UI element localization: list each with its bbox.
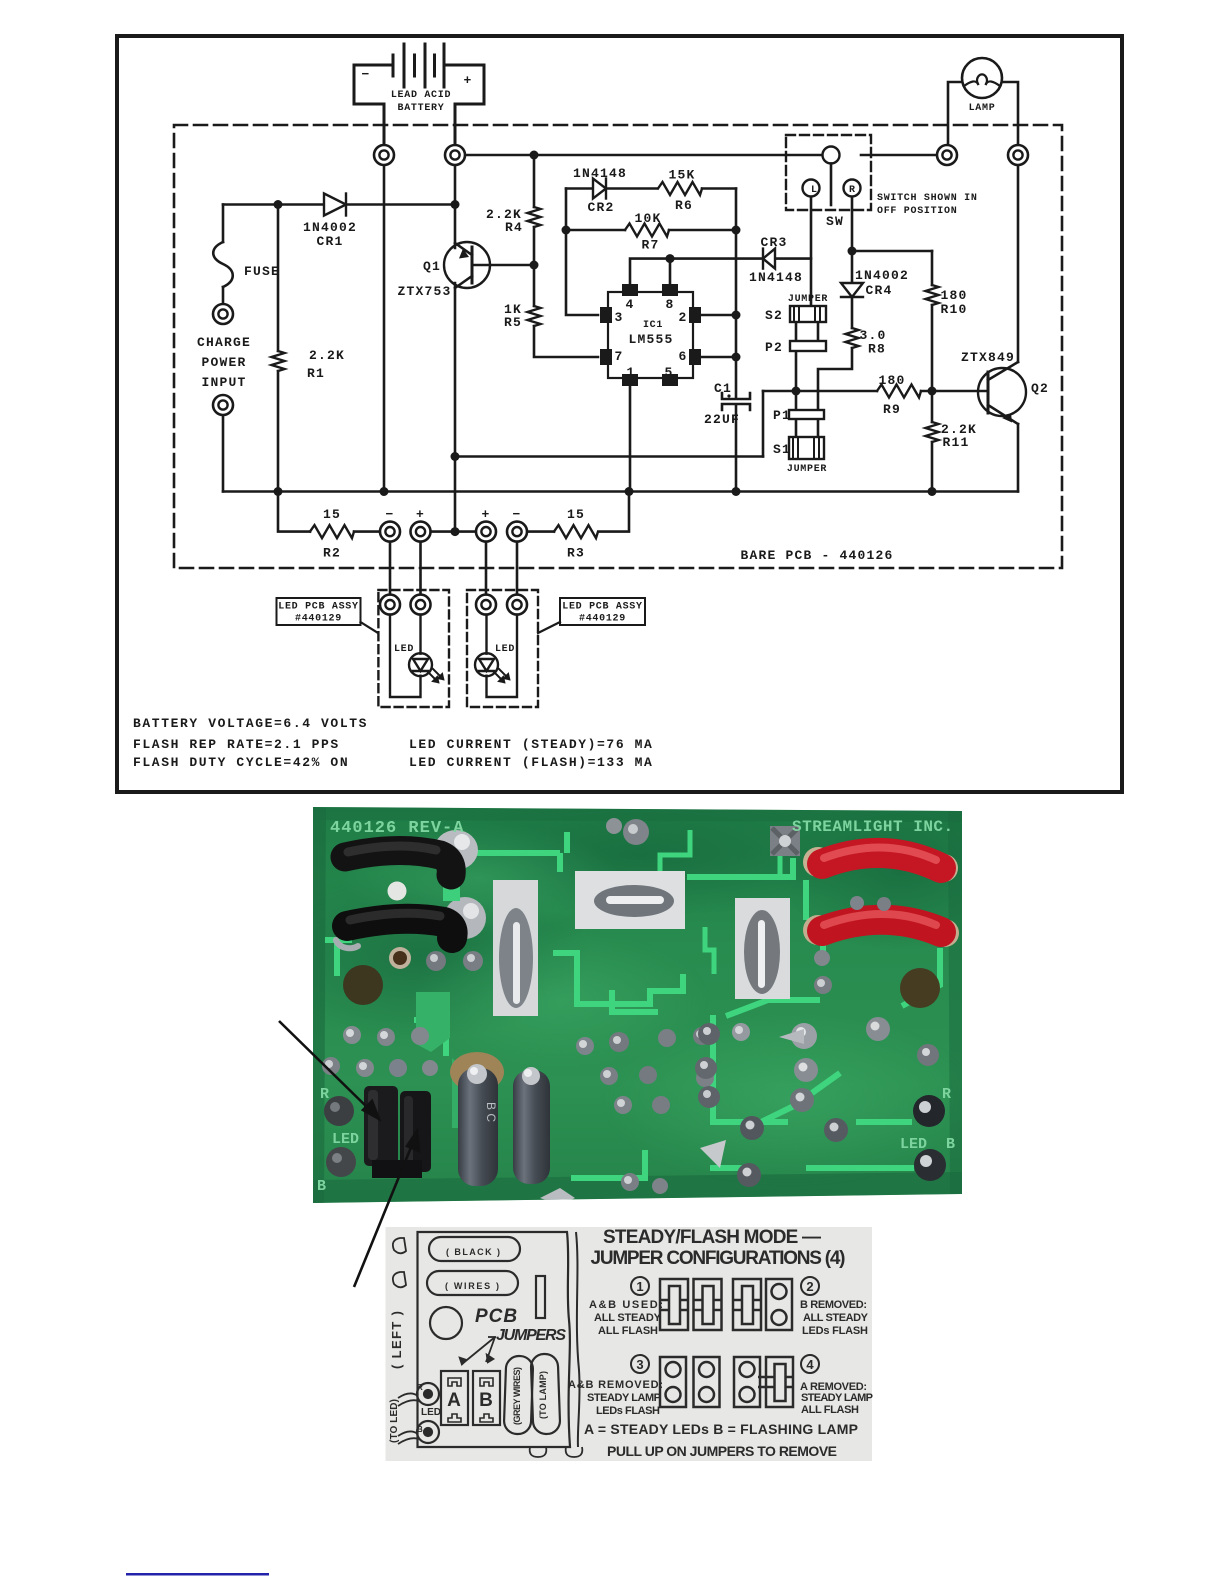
svg-text:+: +	[481, 507, 490, 522]
svg-text:R11: R11	[942, 435, 969, 450]
svg-text:JUMPERS: JUMPERS	[496, 1327, 566, 1344]
svg-text:−: −	[512, 507, 521, 522]
svg-text:LEAD ACID: LEAD ACID	[391, 90, 451, 101]
svg-text:1N4002: 1N4002	[303, 220, 357, 235]
svg-text:C1: C1	[714, 381, 732, 396]
svg-text:BATTERY VOLTAGE=6.4 VOLTS: BATTERY VOLTAGE=6.4 VOLTS	[133, 716, 368, 731]
svg-text:R10: R10	[940, 302, 967, 317]
svg-text:B: B	[946, 1136, 955, 1153]
svg-text:STEADY LAMP: STEADY LAMP	[801, 1392, 873, 1404]
svg-text:ALL FLASH: ALL FLASH	[801, 1404, 859, 1416]
svg-text:SW: SW	[826, 214, 844, 229]
svg-text:180: 180	[940, 288, 967, 303]
svg-text:JUMPER CONFIGURATIONS (4): JUMPER CONFIGURATIONS (4)	[591, 1248, 846, 1269]
svg-text:1: 1	[636, 1279, 643, 1294]
svg-text:ZTX753: ZTX753	[397, 284, 451, 299]
svg-text:R: R	[849, 185, 856, 196]
svg-text:B: B	[479, 1390, 493, 1411]
svg-text:FLASH REP RATE=2.1 PPS: FLASH REP RATE=2.1 PPS	[133, 737, 340, 752]
svg-text:ALL FLASH: ALL FLASH	[598, 1325, 658, 1337]
svg-text:2: 2	[678, 310, 687, 325]
svg-text:JUMPER: JUMPER	[788, 294, 828, 305]
svg-text:R3: R3	[567, 546, 585, 561]
svg-text:#440129: #440129	[579, 614, 626, 625]
svg-text:180: 180	[878, 373, 905, 388]
svg-text:#440129: #440129	[295, 614, 342, 625]
svg-text:(TO LED): (TO LED)	[389, 1399, 400, 1443]
svg-text:R2: R2	[323, 546, 341, 561]
svg-text:LED: LED	[421, 1407, 441, 1418]
svg-text:15K: 15K	[668, 168, 695, 183]
svg-text:S1: S1	[773, 442, 791, 457]
svg-text:B: B	[417, 1425, 423, 1434]
svg-text:S2: S2	[765, 308, 783, 323]
svg-text:CR4: CR4	[865, 283, 892, 298]
svg-text:LM555: LM555	[628, 332, 673, 347]
svg-text:LED CURRENT (STEADY)=76 MA: LED CURRENT (STEADY)=76 MA	[409, 737, 653, 752]
svg-text:(GREY WIRES): (GREY WIRES)	[512, 1367, 522, 1425]
svg-text:1N4148: 1N4148	[573, 166, 627, 181]
svg-text:STREAMLIGHT INC.: STREAMLIGHT INC.	[792, 818, 954, 836]
svg-text:(TO LAMP): (TO LAMP)	[538, 1371, 548, 1419]
svg-text:LED: LED	[495, 644, 515, 655]
svg-text:15: 15	[323, 507, 341, 522]
svg-text:A&B USED:: A&B USED:	[589, 1299, 663, 1311]
svg-text:BARE PCB - 440126: BARE PCB - 440126	[740, 548, 893, 563]
svg-text:5: 5	[664, 365, 673, 380]
svg-text:IC1: IC1	[643, 320, 663, 331]
svg-text:1N4002: 1N4002	[855, 268, 909, 283]
svg-text:+: +	[416, 507, 425, 522]
svg-text:Q2: Q2	[1031, 381, 1049, 396]
svg-text:LED CURRENT (FLASH)=133 MA: LED CURRENT (FLASH)=133 MA	[409, 755, 653, 770]
svg-text:22UF: 22UF	[704, 412, 740, 427]
svg-text:LED: LED	[332, 1131, 359, 1148]
svg-text:A = STEADY LEDs B = FLASHING: A = STEADY LEDs B = FLASHING LAMP	[584, 1421, 858, 1437]
svg-text:B: B	[317, 1178, 326, 1195]
svg-text:P2: P2	[765, 340, 783, 355]
svg-text:7: 7	[614, 349, 623, 364]
svg-text:SWITCH SHOWN IN: SWITCH SHOWN IN	[877, 193, 978, 204]
svg-text:B REMOVED:: B REMOVED:	[800, 1299, 867, 1311]
svg-text:CR1: CR1	[316, 234, 343, 249]
svg-text:L: L	[811, 185, 818, 196]
svg-text:R5: R5	[504, 315, 522, 330]
svg-text:LEDs FLASH: LEDs FLASH	[802, 1325, 868, 1337]
svg-text:4: 4	[806, 1357, 814, 1372]
svg-text:BATTERY: BATTERY	[398, 103, 445, 114]
svg-text:R: R	[942, 1086, 951, 1103]
svg-text:15: 15	[567, 507, 585, 522]
svg-text:4: 4	[625, 297, 634, 312]
svg-text:CR2: CR2	[587, 200, 614, 215]
svg-text:1N4148: 1N4148	[749, 270, 803, 285]
svg-text:PULL UP ON JUMPERS TO REMOVE: PULL UP ON JUMPERS TO REMOVE	[607, 1443, 837, 1459]
svg-text:CHARGE: CHARGE	[197, 335, 251, 350]
svg-text:1: 1	[626, 365, 635, 380]
svg-text:OFF POSITION: OFF POSITION	[877, 206, 957, 217]
svg-text:+: +	[463, 73, 472, 88]
svg-text:R7: R7	[641, 238, 659, 253]
svg-text:8: 8	[665, 297, 674, 312]
svg-text:2.2K: 2.2K	[309, 348, 345, 363]
svg-text:3: 3	[636, 1357, 643, 1372]
svg-text:CR3: CR3	[760, 235, 787, 250]
svg-text:POWER: POWER	[201, 355, 246, 370]
svg-text:R4: R4	[505, 220, 523, 235]
svg-text:3: 3	[614, 310, 623, 325]
svg-text:LED PCB ASSY: LED PCB ASSY	[278, 602, 358, 613]
svg-text:−: −	[385, 507, 394, 522]
svg-text:ALL STEADY: ALL STEADY	[803, 1312, 869, 1324]
svg-text:Q1: Q1	[423, 259, 441, 274]
svg-text:LAMP: LAMP	[969, 103, 996, 114]
svg-text:R9: R9	[883, 402, 901, 417]
svg-text:B C: B C	[484, 1102, 498, 1122]
svg-text:6: 6	[678, 349, 687, 364]
svg-text:R8: R8	[868, 342, 886, 357]
svg-text:LED: LED	[900, 1136, 927, 1153]
svg-text:−: −	[361, 67, 370, 82]
svg-text:440126 REV-A: 440126 REV-A	[330, 819, 464, 838]
svg-text:2: 2	[806, 1279, 813, 1294]
svg-text:LEDs FLASH: LEDs FLASH	[596, 1405, 660, 1417]
svg-text:LED PCB ASSY: LED PCB ASSY	[562, 602, 642, 613]
svg-text:STEADY LAMP: STEADY LAMP	[587, 1392, 661, 1404]
svg-text:R: R	[417, 1383, 423, 1392]
svg-text:ZTX849: ZTX849	[961, 350, 1015, 365]
svg-text:( WIRES ): ( WIRES )	[445, 1281, 499, 1291]
svg-text:R1: R1	[307, 366, 325, 381]
svg-text:FLASH DUTY CYCLE=42% ON: FLASH DUTY CYCLE=42% ON	[133, 755, 349, 770]
svg-text:R6: R6	[675, 198, 693, 213]
svg-text:ALL STEADY: ALL STEADY	[594, 1312, 662, 1324]
svg-text:10K: 10K	[634, 211, 661, 226]
svg-text:INPUT: INPUT	[201, 375, 246, 390]
svg-text:FUSE: FUSE	[244, 264, 280, 279]
svg-text:R: R	[320, 1086, 329, 1103]
svg-text:P1: P1	[773, 408, 791, 423]
svg-text:A&B REMOVED:: A&B REMOVED:	[568, 1379, 663, 1391]
svg-text:JUMPER: JUMPER	[787, 464, 827, 475]
svg-text:STEADY/FLASH MODE —: STEADY/FLASH MODE —	[603, 1227, 821, 1248]
svg-text:LED: LED	[394, 644, 414, 655]
svg-text:PCB: PCB	[475, 1306, 518, 1327]
svg-text:A: A	[447, 1390, 461, 1411]
